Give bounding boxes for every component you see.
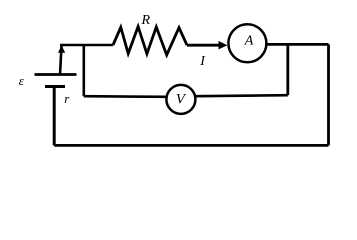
- svg-text:R: R: [141, 13, 151, 28]
- wire: battery bottom vertical: [53, 87, 56, 145]
- resistor R zigzag: [113, 27, 187, 55]
- wire: outer right vertical: [327, 44, 330, 145]
- svg-text:V: V: [176, 91, 187, 107]
- node: left junction vertical to voltmeter branch: [83, 45, 86, 96]
- voltmeter circle: [166, 85, 195, 114]
- wire: resistor to ammeter with current direction: [187, 44, 223, 47]
- wire: voltmeter branch left: [84, 95, 166, 98]
- svg-text:ε: ε: [19, 73, 25, 88]
- node: right junction vertical from top wire to voltmeter branch: [286, 44, 289, 95]
- ammeter U-A circle: [228, 24, 266, 62]
- wire: voltmeter branch right: [196, 95, 288, 96]
- arrowhead up at battery top: [58, 45, 65, 53]
- battery cell short plate (negative): [45, 85, 65, 88]
- wire: top right horizontal from ammeter to right edge: [267, 43, 329, 46]
- arrowhead current I: [219, 41, 228, 49]
- svg-text:r: r: [64, 91, 70, 106]
- battery cell long plate (positive): [35, 73, 77, 76]
- wire: bottom horizontal: [54, 144, 328, 147]
- svg-text:A: A: [244, 34, 254, 49]
- svg-text:I: I: [199, 54, 206, 69]
- wire: top horizontal from battery to resistor: [60, 44, 113, 47]
- wire: battery top vertical: [60, 46, 62, 75]
